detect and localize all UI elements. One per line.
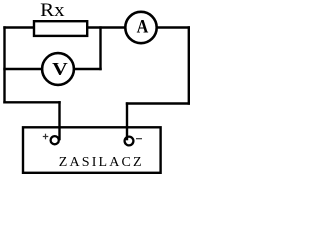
wire junction vertical <box>99 26 101 70</box>
svg-text:Rx: Rx <box>40 0 65 21</box>
resistor Rx <box>34 21 87 36</box>
label - <box>136 138 142 140</box>
terminal + circle <box>51 136 59 144</box>
wire left terminal drop <box>58 101 60 140</box>
svg-text:A: A <box>137 15 149 37</box>
terminal - circle <box>125 137 134 146</box>
wire right terminal drop <box>126 102 128 140</box>
voltmeter V <box>42 53 74 85</box>
wire left to voltmeter <box>3 68 43 70</box>
wire top-left horizontal <box>3 26 35 28</box>
wire resistor to ammeter <box>87 26 126 28</box>
ammeter A <box>125 12 156 43</box>
svg-text:ZASILACZ: ZASILACZ <box>59 155 144 170</box>
wire voltmeter to junction <box>73 68 102 70</box>
svg-text:V: V <box>52 59 68 79</box>
label + <box>43 134 49 140</box>
wire right vertical <box>188 26 190 104</box>
power supply box ZASILACZ <box>23 127 161 173</box>
wire left jog horizontal <box>3 101 60 103</box>
wire left vertical <box>3 26 5 103</box>
wire right jog horizontal <box>126 102 190 104</box>
wire ammeter to right vertical <box>156 26 190 28</box>
